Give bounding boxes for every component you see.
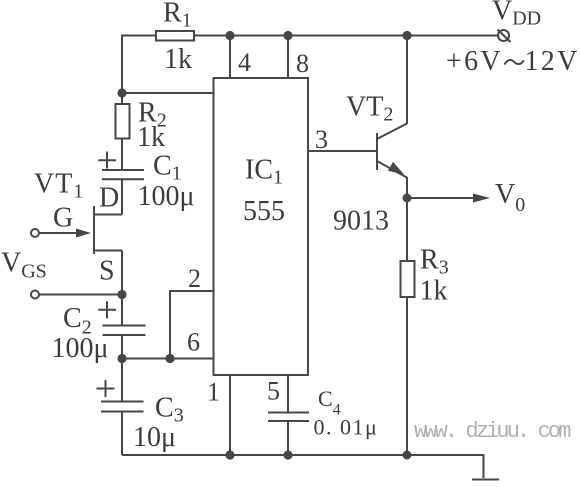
- wire: G input to gate with arrow: [39, 229, 91, 238]
- junction pin4 on rail: [225, 31, 234, 40]
- wire: VT1 source down to node B: [121, 251, 123, 295]
- resistor R1: [156, 31, 194, 41]
- wire: pin 8 to rail: [287, 36, 289, 79]
- transistor VT1 FET: [94, 206, 122, 254]
- wire: R2 leads: [121, 93, 123, 170]
- svg-text:0. 01μ: 0. 01μ: [314, 415, 379, 440]
- wire: node C to C3: [121, 359, 123, 402]
- wire: pin 4 to rail: [229, 36, 231, 79]
- wire: VT2 emitter to node D: [406, 177, 408, 198]
- wire: C4 to ground rail: [287, 421, 289, 455]
- svg-text:100μ: 100μ: [52, 333, 109, 364]
- wire: C3 to ground rail: [121, 412, 123, 456]
- wire: node B to C2: [121, 295, 123, 326]
- wire: pin 1 to ground rail: [229, 375, 231, 455]
- wire: C2 to node C: [121, 335, 123, 359]
- resistor R2: [116, 104, 130, 139]
- junction R3 on ground rail: [403, 451, 412, 460]
- svg-text:8: 8: [296, 49, 309, 78]
- transistor VT2 NPN: [377, 124, 407, 178]
- svg-text:3: 3: [315, 125, 328, 154]
- svg-text:12V: 12V: [525, 46, 580, 77]
- svg-text:10μ: 10μ: [133, 422, 176, 453]
- wire: left drop from top rail to node A: [121, 35, 123, 94]
- svg-text:2: 2: [188, 264, 201, 293]
- junction C4 on ground rail: [283, 450, 292, 459]
- capacitor C1 electrolytic: [98, 152, 144, 180]
- ground: [472, 479, 499, 481]
- resistor R3: [401, 261, 415, 297]
- svg-text:D: D: [99, 183, 119, 214]
- svg-text:1: 1: [207, 378, 220, 407]
- svg-text:4: 4: [238, 48, 251, 77]
- svg-text:5: 5: [267, 377, 280, 406]
- junction pin2 tie on pin6 wire: [165, 354, 174, 363]
- junction node C: [117, 354, 126, 363]
- svg-text:9013: 9013: [333, 206, 389, 237]
- junction pin8 on rail: [283, 31, 292, 40]
- terminal G input: [31, 229, 39, 237]
- wire: node C to IC pin 6: [122, 358, 214, 360]
- wire: pin 2 elbow: [170, 291, 214, 359]
- wire: VGS input to node B: [39, 294, 122, 296]
- junction pin1 on ground rail: [225, 450, 234, 459]
- svg-text:1k: 1k: [137, 122, 165, 153]
- wire: C1 to VT1 drain: [121, 180, 123, 215]
- svg-text:www. dziuu. com: www. dziuu. com: [414, 419, 571, 444]
- svg-text:G: G: [53, 203, 73, 234]
- junction node B: [117, 290, 126, 299]
- wire: rail to ground symbol: [483, 454, 485, 478]
- wire: R3 to ground rail: [406, 297, 408, 455]
- op-amp/timer IC1 555 box: [214, 78, 309, 375]
- svg-text:+6V: +6V: [446, 46, 503, 77]
- svg-text:6: 6: [187, 328, 200, 357]
- capacitor C2 electrolytic: [98, 301, 145, 335]
- capacitor C3 electrolytic: [97, 380, 144, 412]
- capacitor C4: [268, 413, 309, 422]
- svg-text:100μ: 100μ: [138, 181, 195, 212]
- wire: node D to R3: [406, 198, 408, 261]
- svg-text:1k: 1k: [164, 44, 192, 75]
- wire: bottom ground rail: [122, 454, 484, 456]
- junction node D: [403, 194, 412, 203]
- svg-text:S: S: [99, 256, 115, 287]
- terminal VGS input: [31, 291, 39, 299]
- wire: VT2 collector to rail: [406, 36, 408, 125]
- terminal VDD: [498, 30, 511, 43]
- wire: node A to IC left edge: [122, 92, 214, 94]
- junction collector on rail: [402, 31, 411, 40]
- wire: pin 3 to VT2 base: [308, 150, 376, 152]
- junction node A: [117, 88, 126, 97]
- output V0 arrow: [411, 194, 490, 203]
- svg-text:555: 555: [243, 196, 285, 227]
- wire: top supply rail: [122, 35, 498, 37]
- svg-text:1k: 1k: [420, 276, 448, 307]
- wire: pin 5 to C4: [287, 375, 289, 413]
